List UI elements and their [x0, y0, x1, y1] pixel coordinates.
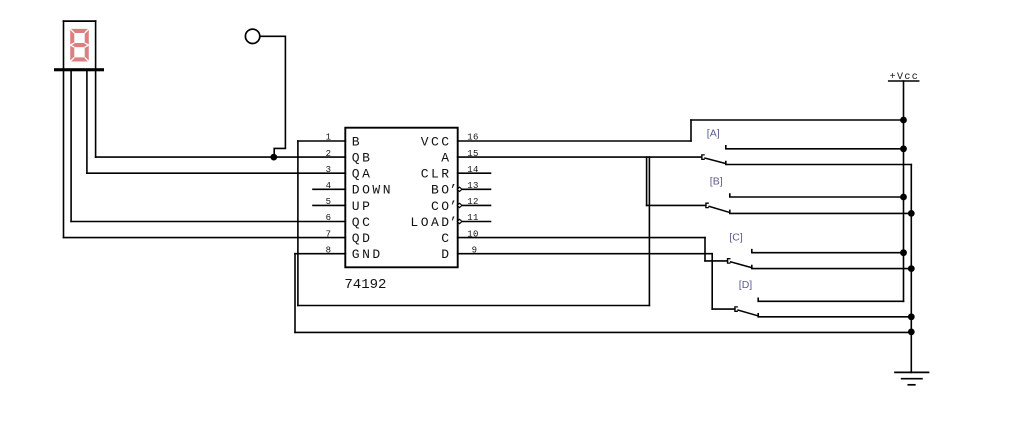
svg-text:LOAD: LOAD	[410, 215, 451, 230]
svg-text:QA: QA	[352, 167, 373, 182]
svg-text:DOWN: DOWN	[352, 183, 393, 198]
svg-text:13: 13	[467, 181, 478, 191]
svg-text:12: 12	[467, 197, 478, 207]
svg-text:14: 14	[467, 165, 478, 175]
svg-text:8: 8	[326, 245, 332, 255]
svg-text:2: 2	[326, 149, 332, 159]
svg-text:[A]: [A]	[707, 127, 720, 139]
svg-text:QD: QD	[352, 231, 373, 246]
svg-text:3: 3	[326, 165, 332, 175]
svg-text:1: 1	[326, 133, 332, 143]
svg-text:’: ’	[449, 215, 457, 230]
svg-text:[B]: [B]	[710, 175, 723, 187]
svg-text:A: A	[441, 151, 451, 166]
svg-text:6: 6	[326, 213, 332, 223]
svg-text:5: 5	[326, 197, 332, 207]
svg-text:QC: QC	[352, 215, 373, 230]
svg-text:11: 11	[467, 213, 478, 223]
svg-text:D: D	[441, 247, 451, 262]
svg-text:16: 16	[467, 133, 478, 143]
svg-text:10: 10	[467, 229, 478, 239]
svg-text:74192: 74192	[344, 277, 386, 293]
svg-text:7: 7	[326, 229, 332, 239]
svg-text:’: ’	[449, 183, 457, 198]
svg-text:+Vcc: +Vcc	[890, 72, 920, 83]
svg-text:15: 15	[467, 149, 478, 159]
svg-text:UP: UP	[352, 199, 373, 214]
svg-text:4: 4	[326, 181, 332, 191]
svg-text:B: B	[352, 134, 362, 149]
svg-text:CLR: CLR	[421, 167, 452, 182]
svg-text:C: C	[441, 231, 451, 246]
svg-text:[C]: [C]	[729, 231, 743, 243]
svg-text:QB: QB	[352, 151, 373, 166]
svg-text:VCC: VCC	[421, 134, 452, 149]
svg-text:GND: GND	[352, 247, 383, 262]
svg-text:[D]: [D]	[739, 279, 753, 291]
svg-text:’: ’	[449, 199, 457, 214]
svg-text:9: 9	[472, 245, 478, 255]
